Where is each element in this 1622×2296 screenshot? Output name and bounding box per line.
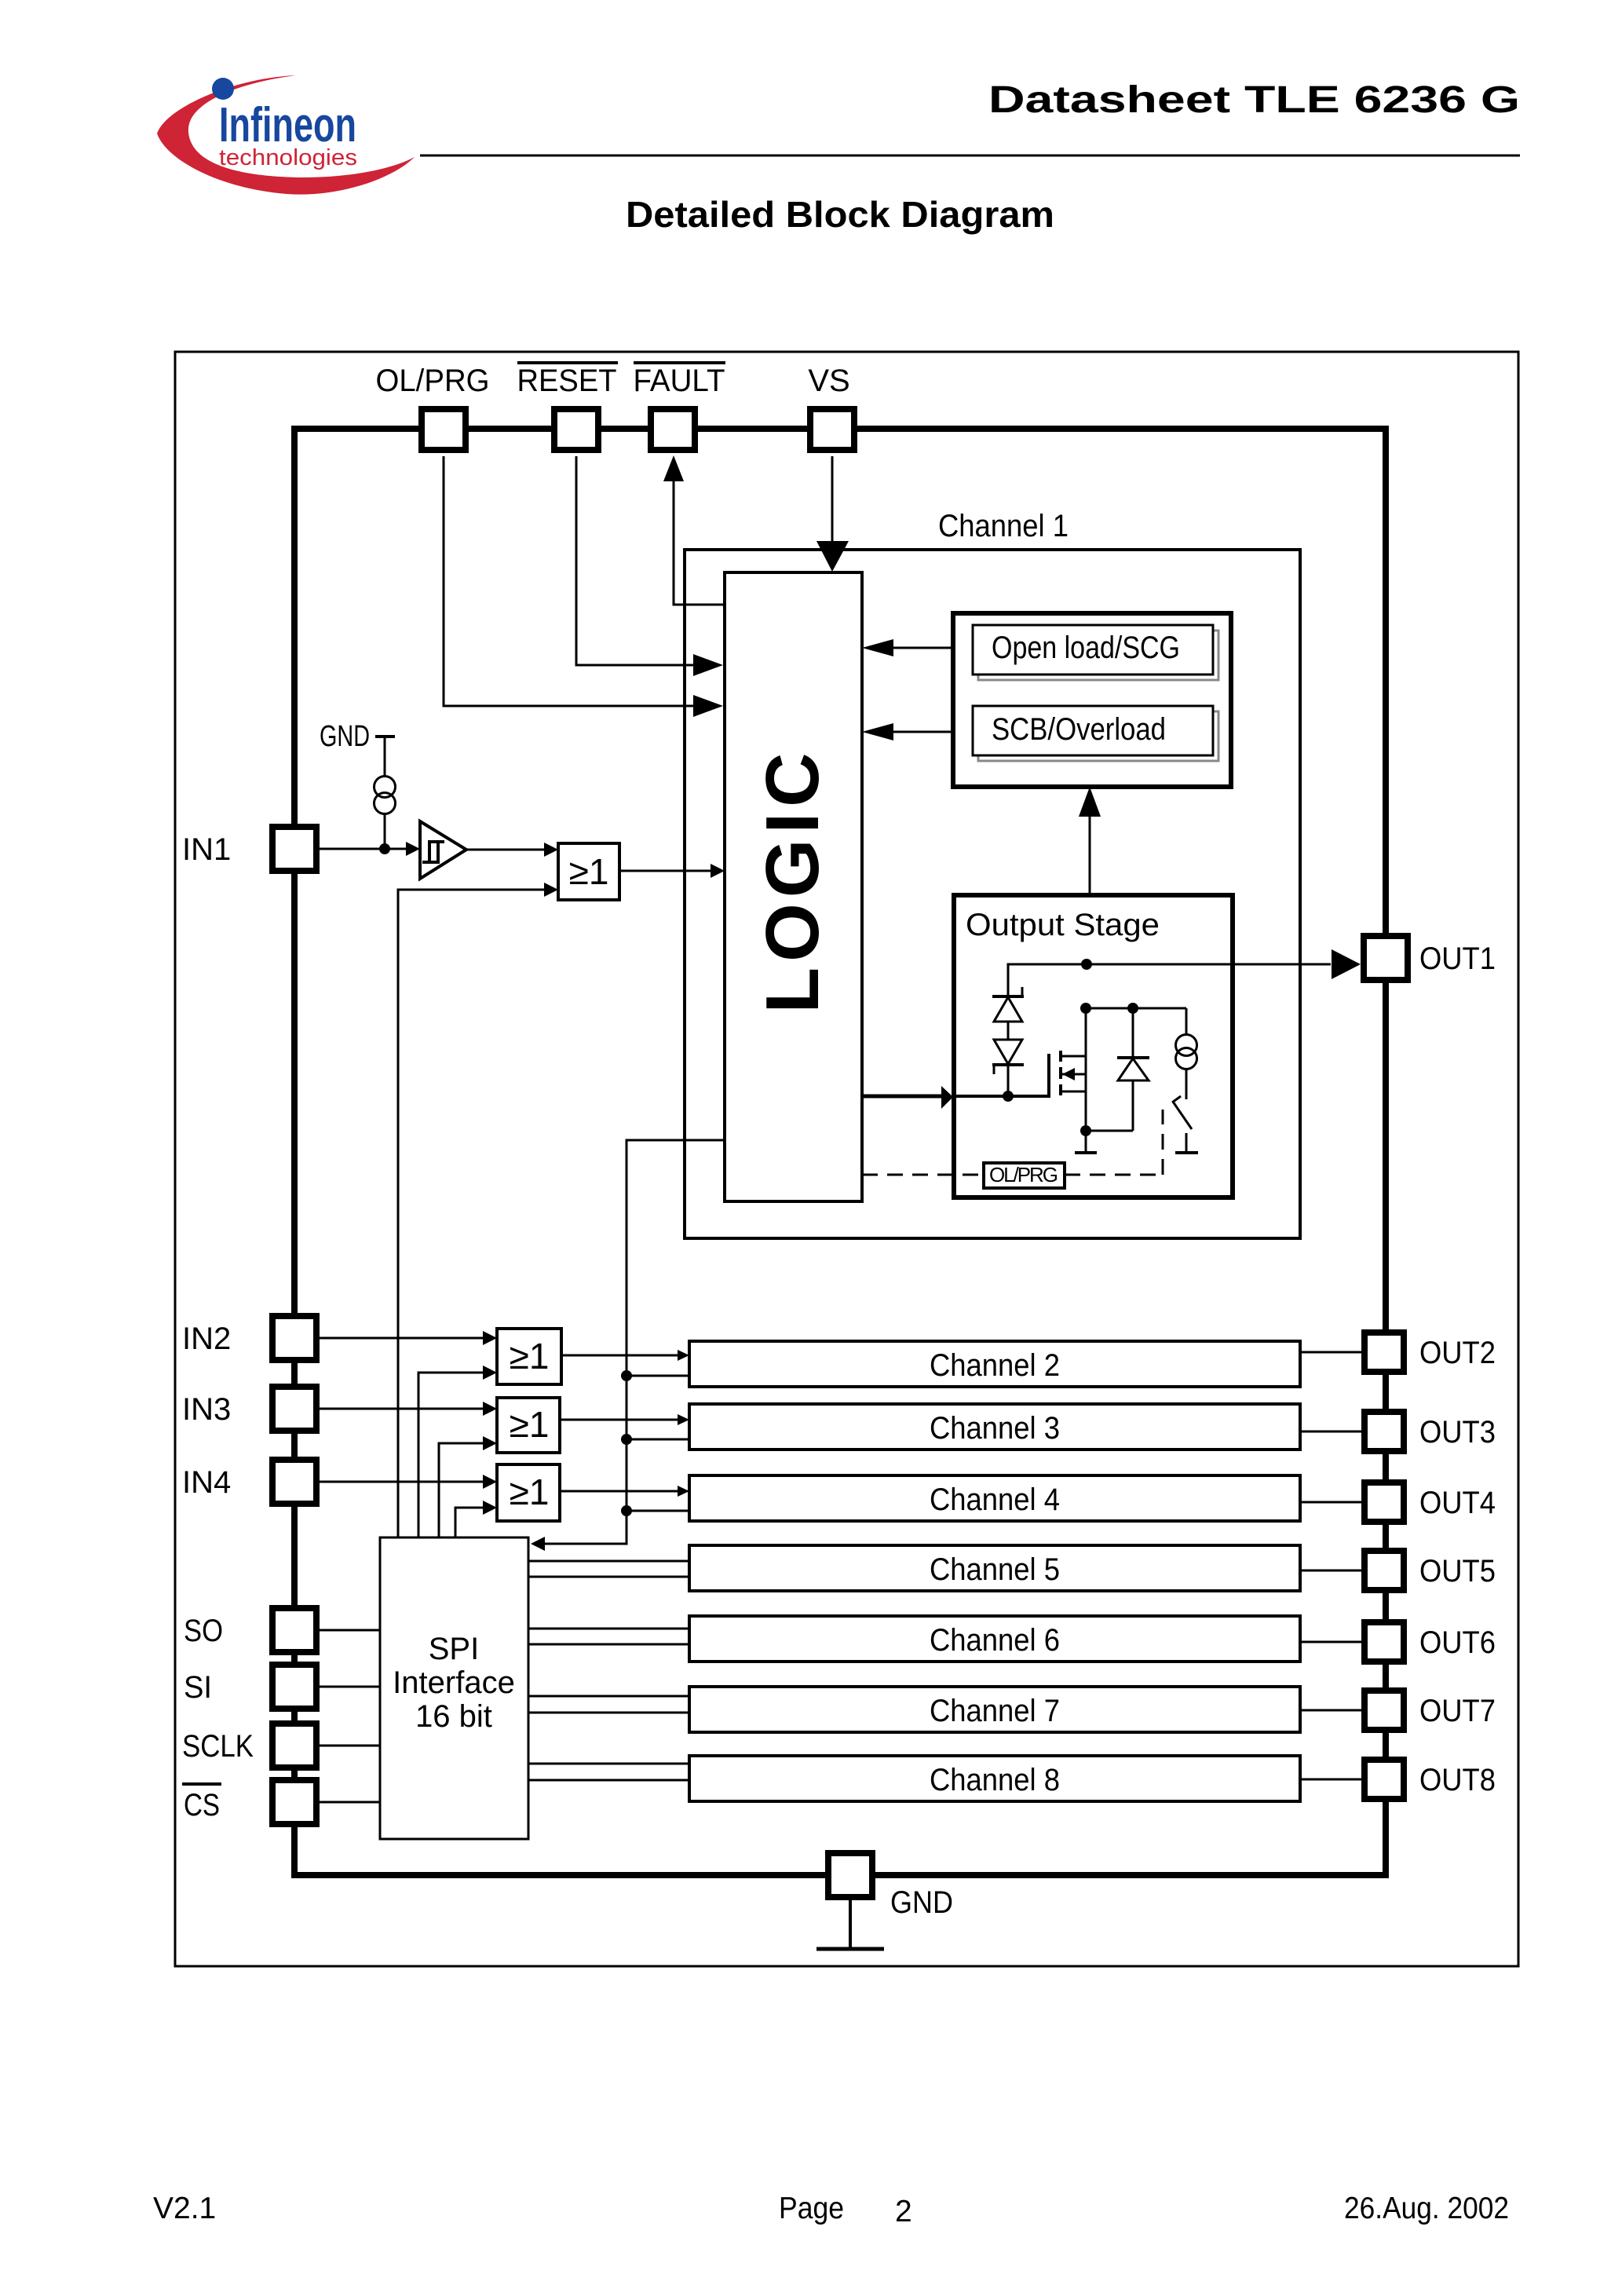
Infineon logo swoosh — [157, 75, 415, 195]
svg-text:LOGIC: LOGIC — [751, 748, 835, 1014]
pin IN4 — [182, 1460, 316, 1504]
pin OUT3 — [1364, 1412, 1496, 1451]
pin IN3 — [182, 1387, 316, 1431]
pin SI — [184, 1665, 316, 1709]
svg-text:≥1: ≥1 — [510, 1472, 550, 1512]
wire SPI to channel 7 — [528, 1696, 689, 1713]
wire IN3 to OR gate G3 — [320, 1402, 497, 1416]
pin OUT8 — [1364, 1760, 1496, 1799]
pin CS — [182, 1780, 316, 1824]
wire SI to SPI — [320, 1686, 380, 1688]
svg-text:Page: Page — [779, 2192, 844, 2225]
SPI interface block — [380, 1537, 528, 1839]
pin FAULT — [634, 363, 726, 450]
node GND reference above IN1 — [320, 720, 395, 777]
svg-text:OUT4: OUT4 — [1419, 1486, 1496, 1520]
wire channel 8 to OUT8 — [1300, 1779, 1361, 1781]
pin OL/PRG — [376, 364, 490, 450]
wire drain node — [1008, 949, 1361, 996]
svg-text:≥1: ≥1 — [510, 1404, 550, 1445]
pin OUT2 — [1364, 1333, 1496, 1372]
svg-text:VS: VS — [808, 364, 849, 398]
svg-text:V2.1: V2.1 — [153, 2192, 216, 2225]
junction at diode D1 top — [1127, 1003, 1138, 1014]
OR gate G3 — [497, 1398, 560, 1453]
svg-text:SPI: SPI — [429, 1632, 479, 1666]
current source I1 (pull current at IN1) — [374, 777, 396, 850]
node channel 3 status — [621, 1434, 689, 1445]
channel 6 box — [689, 1616, 1300, 1662]
wire drain branch — [1080, 1003, 1186, 1014]
wire OL/PRG to logic — [444, 456, 723, 717]
svg-text:CS: CS — [184, 1788, 220, 1823]
svg-text:Channel 3: Channel 3 — [930, 1411, 1060, 1446]
pin GND — [828, 1853, 953, 1920]
wire channel 2 to OUT2 — [1300, 1351, 1361, 1354]
wire RESET to logic — [576, 456, 723, 676]
mosfet Q1 — [1049, 1008, 1086, 1131]
wire SPI to G3 — [439, 1436, 497, 1537]
supply bus ring — [294, 429, 1386, 1875]
svg-text:OL/PRG: OL/PRG — [376, 364, 490, 398]
pin OUT5 — [1364, 1551, 1496, 1590]
header rule — [420, 155, 1520, 157]
wire schmitt to OR gate — [466, 843, 558, 857]
svg-text:OL/PRG: OL/PRG — [989, 1163, 1058, 1186]
svg-text:16 bit: 16 bit — [415, 1699, 492, 1734]
OR gate G2 — [497, 1329, 561, 1384]
freewheel diode D1 — [1080, 1008, 1149, 1136]
zener diode Z2 — [992, 1022, 1024, 1096]
wire IN4 to OR gate G4 — [320, 1475, 497, 1489]
wire output stage to diagnostics — [1079, 787, 1101, 895]
wire gate node — [955, 1091, 1049, 1102]
ground at mosfet source — [1075, 1131, 1097, 1153]
svg-text:SI: SI — [184, 1670, 212, 1705]
node channel 4 status — [621, 1505, 689, 1516]
pin OUT4 — [1364, 1483, 1496, 1522]
svg-text:≥1: ≥1 — [569, 851, 609, 892]
svg-text:OUT2: OUT2 — [1419, 1336, 1496, 1370]
svg-text:Infineon: Infineon — [219, 98, 356, 152]
pin OUT1 — [1364, 936, 1496, 980]
svg-text:26.Aug. 2002: 26.Aug. 2002 — [1344, 2192, 1509, 2225]
svg-text:Datasheet TLE 6236 G: Datasheet TLE 6236 G — [988, 79, 1520, 121]
svg-text:SO: SO — [184, 1614, 223, 1648]
svg-text:OUT8: OUT8 — [1419, 1763, 1496, 1797]
svg-text:Channel 2: Channel 2 — [930, 1348, 1060, 1383]
svg-text:Channel 7: Channel 7 — [930, 1694, 1060, 1728]
svg-text:≥1: ≥1 — [510, 1336, 550, 1377]
junction at source node — [1080, 1125, 1091, 1136]
svg-text:SCB/Overload: SCB/Overload — [992, 712, 1166, 747]
channel 2 box — [689, 1341, 1300, 1387]
channel 8 box — [689, 1756, 1300, 1801]
junction at output node — [1081, 959, 1092, 970]
svg-text:IN1: IN1 — [182, 832, 231, 867]
switch SW1 — [1172, 1096, 1198, 1153]
wire channel 3 to OUT3 — [1300, 1431, 1361, 1433]
wire FAULT from logic — [663, 455, 725, 605]
wire G2 to channel 2 — [561, 1350, 689, 1361]
wire SPI to G2 — [418, 1366, 497, 1537]
current source I2 — [1176, 1008, 1197, 1099]
channel 5 box — [689, 1545, 1300, 1591]
svg-text:IN3: IN3 — [182, 1392, 231, 1427]
svg-text:GND: GND — [890, 1885, 953, 1920]
page title — [626, 194, 1054, 235]
OR gate G1 (channel 1) — [558, 843, 619, 900]
wire channel 4 to OUT4 — [1300, 1501, 1361, 1504]
wire channel 5 to OUT5 — [1300, 1570, 1361, 1572]
svg-text:Open load/SCG: Open load/SCG — [992, 631, 1180, 665]
svg-text:RESET: RESET — [517, 364, 617, 398]
svg-text:OUT1: OUT1 — [1419, 941, 1496, 976]
Infineon logo dot — [212, 78, 234, 100]
footer date — [1344, 2192, 1509, 2225]
ground symbol at GND pin — [816, 1900, 884, 1949]
channel 4 box — [689, 1475, 1300, 1521]
wire SPI to channel 8 — [528, 1764, 689, 1780]
svg-text:Detailed Block Diagram: Detailed Block Diagram — [626, 194, 1054, 235]
schmitt trigger U2 — [420, 821, 466, 879]
pin SCLK — [182, 1724, 316, 1768]
header title — [988, 79, 1520, 121]
pin OUT7 — [1364, 1691, 1496, 1730]
svg-text:Output Stage: Output Stage — [966, 908, 1160, 942]
svg-text:OUT7: OUT7 — [1419, 1694, 1496, 1728]
svg-text:OUT3: OUT3 — [1419, 1415, 1496, 1450]
channel 1 box — [685, 509, 1300, 1238]
status bus from logic to SPI — [531, 1140, 725, 1551]
channel 3 box — [689, 1404, 1300, 1450]
wire channel 6 to OUT6 — [1300, 1641, 1361, 1643]
svg-text:Channel 6: Channel 6 — [930, 1623, 1060, 1658]
svg-text:FAULT: FAULT — [634, 364, 725, 398]
svg-text:Channel 5: Channel 5 — [930, 1552, 1060, 1587]
dashed control wire — [862, 1110, 1163, 1175]
wire logic gate drive to output stage — [862, 1086, 953, 1109]
channel 7 box — [689, 1687, 1300, 1732]
junction at IN1 node — [379, 843, 390, 854]
pin OUT6 — [1364, 1622, 1496, 1662]
diagnostics box (channel 1) — [953, 613, 1231, 787]
pin RESET — [517, 363, 619, 450]
zener diode Z1 — [992, 964, 1024, 1022]
SCB/overload detector — [973, 706, 1218, 761]
wire CS to SPI — [320, 1801, 380, 1804]
wire G3 to channel 3 — [560, 1414, 689, 1425]
node channel 2 status — [621, 1370, 689, 1381]
technologies wordmark — [219, 145, 357, 170]
open load/SCG detector — [973, 625, 1218, 680]
svg-text:Channel 4: Channel 4 — [930, 1483, 1060, 1517]
junction at gate node — [1003, 1091, 1014, 1102]
wire IN1 to schmitt trigger — [320, 842, 420, 856]
pin VS — [808, 364, 854, 450]
footer version — [153, 2192, 216, 2225]
pin SO — [184, 1608, 316, 1652]
svg-text:technologies: technologies — [219, 145, 357, 170]
wire G4 to channel 4 — [560, 1486, 689, 1497]
logic block U1 — [725, 572, 862, 1201]
svg-text:IN2: IN2 — [182, 1322, 231, 1356]
wire open load to logic — [862, 639, 953, 656]
junction at drain node — [1080, 1003, 1091, 1014]
wire SCB to logic — [862, 723, 953, 740]
svg-text:OUT6: OUT6 — [1419, 1625, 1496, 1660]
wire G1 output to logic — [619, 864, 725, 878]
wire channel 7 to OUT7 — [1300, 1709, 1361, 1712]
wire IN2 to OR gate G2 — [320, 1331, 497, 1345]
svg-text:Interface: Interface — [393, 1665, 515, 1700]
svg-text:IN4: IN4 — [182, 1465, 231, 1500]
svg-text:2: 2 — [895, 2195, 912, 2228]
footer page — [779, 2192, 912, 2228]
svg-text:OUT5: OUT5 — [1419, 1554, 1496, 1589]
Infineon wordmark — [219, 98, 356, 152]
wire SO to SPI — [320, 1629, 380, 1632]
wire SPI to channel 6 — [528, 1629, 689, 1644]
svg-text:SCLK: SCLK — [182, 1729, 254, 1764]
OR gate G4 — [497, 1464, 560, 1521]
wire SPI to channel 5 — [528, 1561, 689, 1577]
pin IN1 — [182, 827, 316, 871]
OL/PRG mode box — [984, 1163, 1065, 1188]
svg-text:GND: GND — [320, 720, 370, 753]
wire SCLK to SPI — [320, 1745, 380, 1747]
wire SPI to G4 — [455, 1501, 497, 1537]
output stage box — [954, 895, 1233, 1197]
pin IN2 — [182, 1316, 316, 1360]
svg-text:Channel 1: Channel 1 — [938, 509, 1069, 543]
wire SPI to G1 second input — [398, 883, 558, 1537]
wire VS to logic — [816, 456, 849, 572]
svg-text:Channel 8: Channel 8 — [930, 1763, 1060, 1797]
page frame — [175, 352, 1518, 1966]
